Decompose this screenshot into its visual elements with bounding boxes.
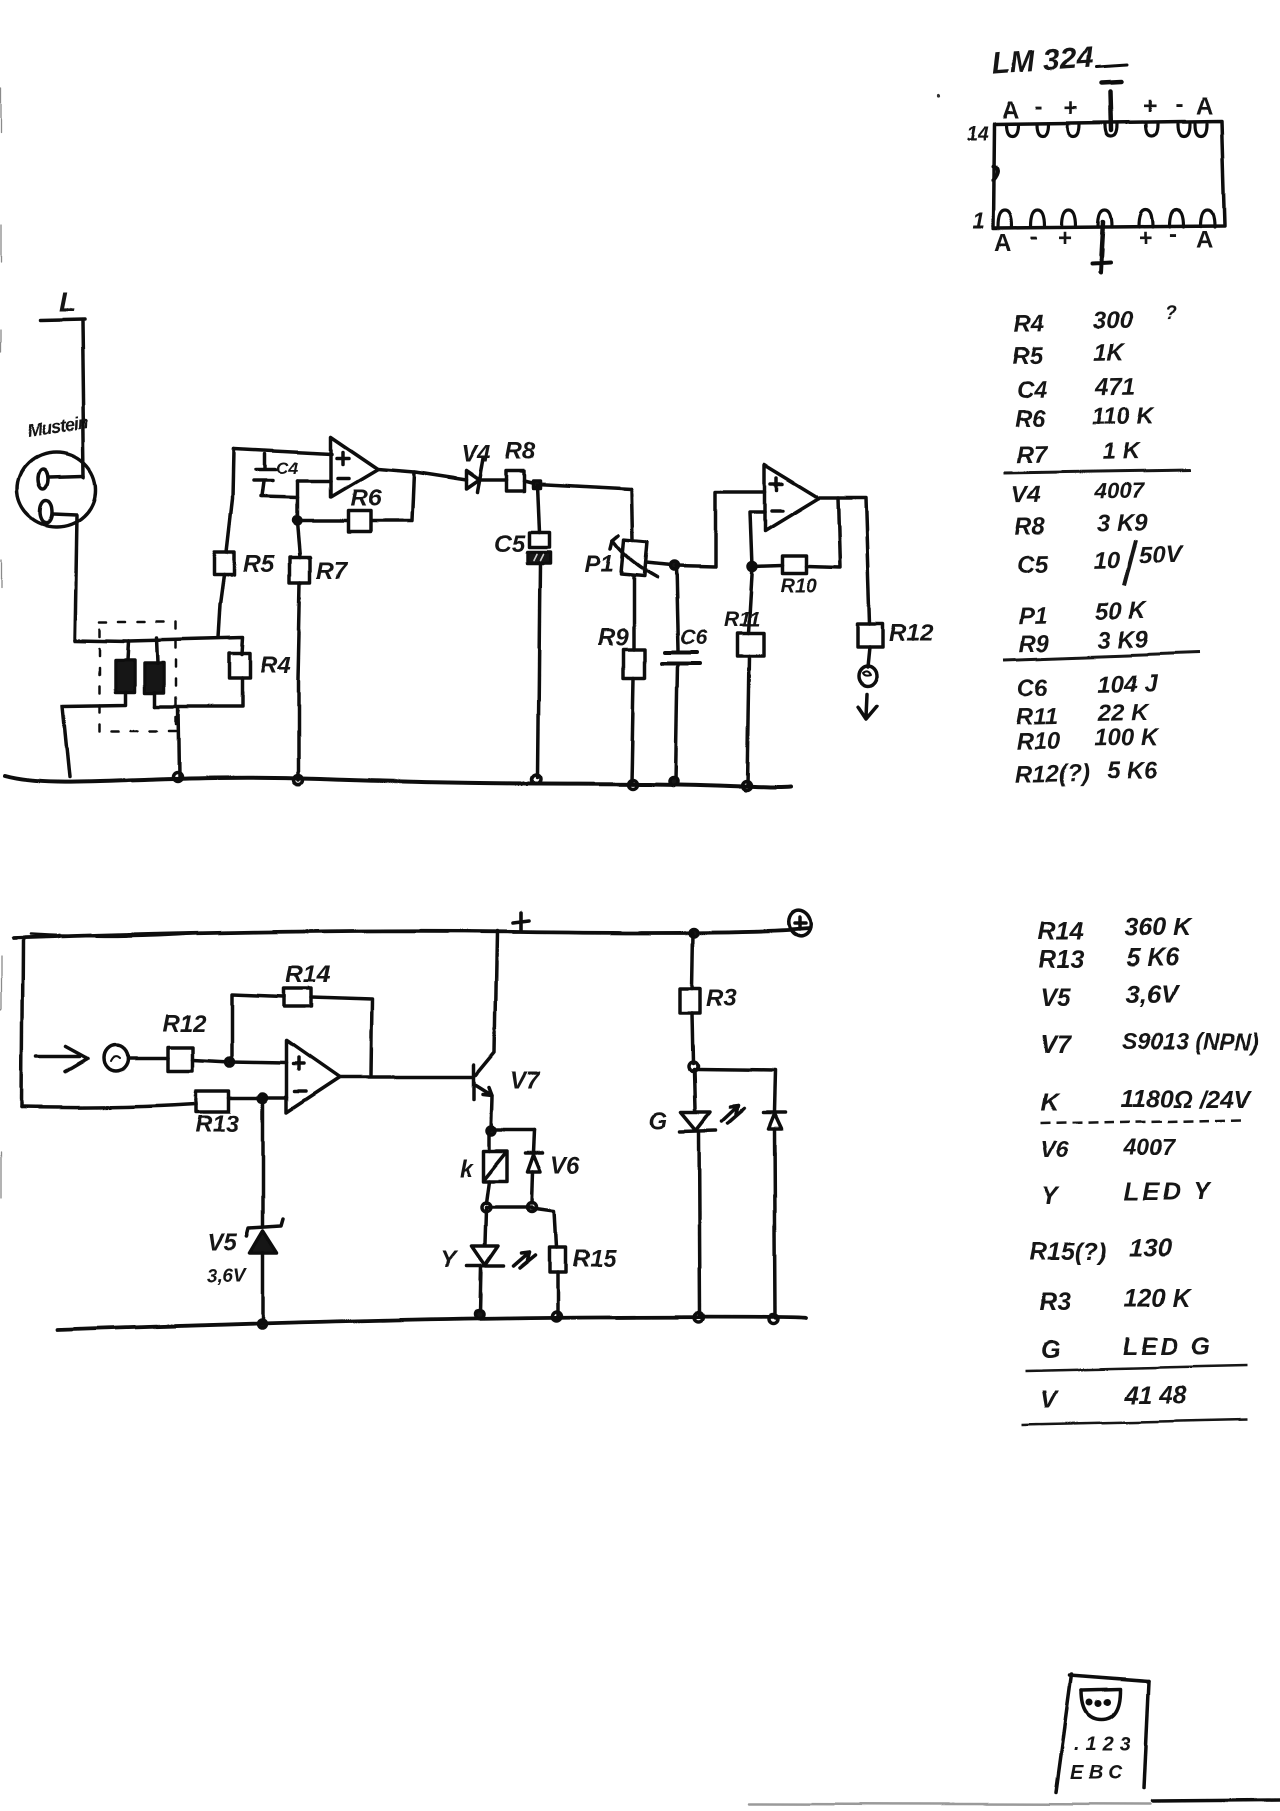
svg-text:LED Y: LED Y <box>1124 1178 1212 1206</box>
svg-text:R14: R14 <box>286 961 330 988</box>
svg-text:R5: R5 <box>244 551 275 578</box>
svg-text:R6: R6 <box>1014 405 1046 433</box>
svg-text:R10: R10 <box>780 575 817 597</box>
svg-text:R4: R4 <box>260 652 291 679</box>
svg-text:V4: V4 <box>461 441 490 468</box>
svg-text:10: 10 <box>1093 547 1121 574</box>
svg-text:C4: C4 <box>276 459 298 478</box>
svg-text:R4: R4 <box>1013 310 1044 338</box>
svg-text:A: A <box>1196 227 1213 254</box>
svg-text:-: - <box>1030 223 1038 250</box>
svg-text:R3: R3 <box>706 985 737 1012</box>
svg-text:R7: R7 <box>1017 441 1050 469</box>
svg-text:A: A <box>994 229 1011 256</box>
svg-text:+: + <box>1064 95 1078 122</box>
svg-text:R15: R15 <box>572 1245 617 1272</box>
svg-text:R7: R7 <box>316 557 348 584</box>
svg-text:Mustein: Mustein <box>26 413 90 441</box>
svg-text:A: A <box>1196 93 1213 120</box>
svg-text:+: + <box>1138 225 1152 252</box>
svg-text:V6: V6 <box>1040 1137 1068 1163</box>
svg-text:V4: V4 <box>1012 481 1042 509</box>
svg-text:R9: R9 <box>598 624 629 651</box>
svg-text:V7: V7 <box>1040 1031 1072 1059</box>
svg-text:R10: R10 <box>1016 728 1061 756</box>
svg-text:104 J: 104 J <box>1097 670 1158 698</box>
svg-text:Y: Y <box>441 1246 459 1273</box>
svg-text:C5: C5 <box>1017 551 1049 579</box>
svg-text:V6: V6 <box>551 1152 581 1179</box>
svg-text:LED G: LED G <box>1122 1333 1213 1361</box>
svg-text:+: + <box>1058 225 1072 252</box>
svg-text:-: - <box>1169 221 1177 248</box>
svg-text:5 K6: 5 K6 <box>1107 757 1159 785</box>
svg-text:3 K9: 3 K9 <box>1096 509 1148 537</box>
svg-text:1K: 1K <box>1093 339 1126 367</box>
svg-text:360 K: 360 K <box>1124 914 1193 942</box>
svg-text:V5: V5 <box>208 1229 238 1256</box>
svg-text:R15(?): R15(?) <box>1030 1238 1108 1266</box>
svg-text:120 K: 120 K <box>1124 1285 1193 1313</box>
svg-text:100 K: 100 K <box>1094 724 1160 752</box>
svg-text:300: 300 <box>1093 307 1134 335</box>
svg-text:EBC: EBC <box>1070 1762 1127 1784</box>
svg-text:R9: R9 <box>1018 630 1050 658</box>
svg-text:C6: C6 <box>1017 674 1049 702</box>
svg-text:P1: P1 <box>1018 602 1048 630</box>
svg-text:1 K: 1 K <box>1102 438 1141 466</box>
svg-text:Y: Y <box>1042 1182 1061 1210</box>
svg-text:.123: .123 <box>1074 1733 1137 1755</box>
svg-text:R5: R5 <box>1011 342 1043 370</box>
svg-text:471: 471 <box>1095 373 1137 401</box>
svg-text:R3: R3 <box>1040 1288 1072 1316</box>
svg-text:LM 324: LM 324 <box>991 41 1095 81</box>
svg-text:110 K: 110 K <box>1092 401 1156 429</box>
svg-text:130: 130 <box>1130 1235 1172 1263</box>
svg-text:R8: R8 <box>505 438 536 465</box>
svg-text:14: 14 <box>966 123 988 145</box>
svg-text:50V: 50V <box>1139 542 1184 570</box>
svg-text:R11: R11 <box>1016 703 1059 731</box>
svg-text:R14: R14 <box>1038 918 1084 946</box>
svg-text:V: V <box>1040 1386 1059 1414</box>
svg-text:R12(?): R12(?) <box>1015 760 1090 788</box>
svg-text:R11: R11 <box>723 608 760 631</box>
svg-text:R8: R8 <box>1014 513 1046 541</box>
svg-text:+: + <box>1143 93 1157 120</box>
svg-text:-: - <box>1035 93 1043 120</box>
svg-text:R12: R12 <box>162 1010 207 1037</box>
svg-text:4007: 4007 <box>1123 1134 1176 1160</box>
svg-text:R6: R6 <box>349 485 380 512</box>
svg-text:3 K9: 3 K9 <box>1098 626 1150 654</box>
svg-text:R13: R13 <box>1038 946 1084 974</box>
svg-text:K: K <box>1040 1089 1060 1117</box>
svg-text:G: G <box>1040 1336 1059 1364</box>
svg-text:C4: C4 <box>1016 376 1047 404</box>
svg-text:?: ? <box>1165 303 1177 324</box>
svg-text:k: k <box>459 1155 474 1182</box>
svg-text:C5: C5 <box>494 530 525 557</box>
svg-text:1180Ω /24V: 1180Ω /24V <box>1120 1085 1254 1113</box>
svg-text:P1: P1 <box>585 551 614 578</box>
svg-text:R12: R12 <box>889 620 934 647</box>
svg-text:C6: C6 <box>680 626 707 649</box>
svg-text:5 K6: 5 K6 <box>1126 944 1180 972</box>
svg-text:R13: R13 <box>196 1111 241 1138</box>
svg-text:3,6V: 3,6V <box>207 1266 247 1287</box>
svg-text:1: 1 <box>972 208 984 233</box>
svg-text:41 48: 41 48 <box>1123 1382 1187 1410</box>
svg-text:L: L <box>58 287 75 318</box>
svg-text:4007: 4007 <box>1093 477 1145 503</box>
svg-text:G: G <box>649 1107 668 1134</box>
svg-text:-: - <box>1175 91 1183 118</box>
svg-text:A: A <box>1002 97 1019 124</box>
svg-text:22 K: 22 K <box>1097 699 1151 727</box>
svg-text:3,6V: 3,6V <box>1126 981 1180 1009</box>
svg-text:V5: V5 <box>1040 984 1072 1012</box>
svg-text:50 K: 50 K <box>1096 597 1149 625</box>
svg-text:V7: V7 <box>510 1068 541 1095</box>
svg-text:S9013 (NPN): S9013 (NPN) <box>1122 1028 1259 1054</box>
